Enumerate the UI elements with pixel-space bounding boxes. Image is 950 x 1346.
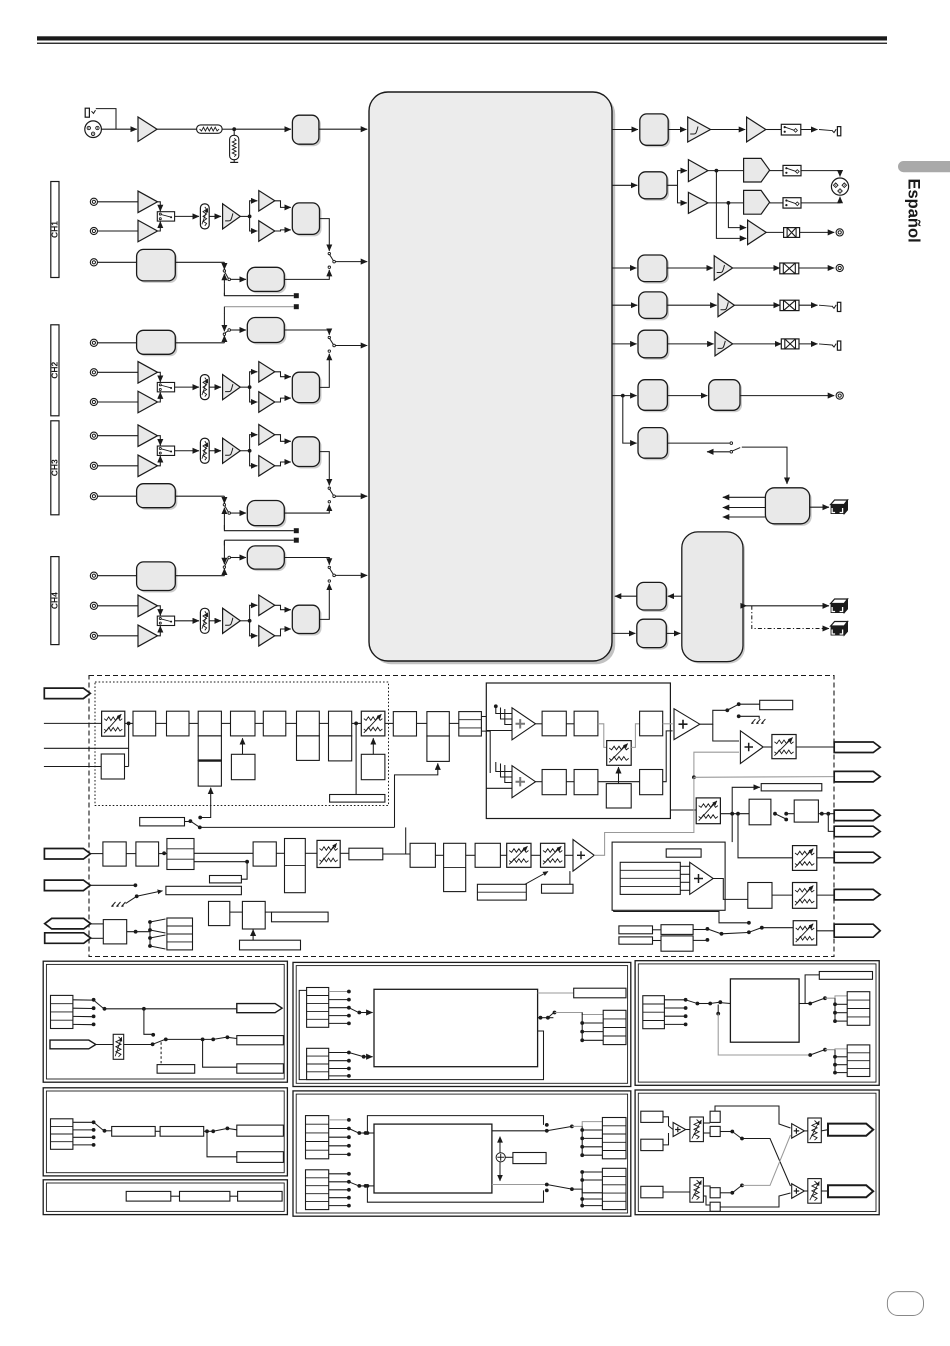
sub block bbox=[329, 736, 352, 761]
label block bbox=[237, 1064, 284, 1073]
CH2 source select switch bbox=[328, 336, 330, 338]
node bbox=[718, 1000, 722, 1004]
sum amp L bbox=[792, 1124, 805, 1139]
CH4 input select switch bbox=[157, 616, 174, 625]
wire gray bbox=[825, 996, 847, 998]
panel M2 group bbox=[293, 1091, 631, 1216]
wire bbox=[664, 999, 684, 1001]
input label pennant bbox=[44, 688, 90, 699]
node bbox=[570, 1187, 574, 1191]
node bbox=[696, 1002, 700, 1006]
contact bbox=[151, 1033, 155, 1037]
wire bbox=[98, 575, 137, 577]
CH1 aux block bbox=[139, 251, 178, 283]
wire bbox=[715, 1106, 791, 1128]
CH4 input amp 1 bbox=[138, 595, 158, 617]
wire bbox=[98, 605, 138, 607]
CH3 post amp 1 bbox=[259, 424, 275, 445]
wire bbox=[372, 738, 374, 754]
wire gray bbox=[663, 723, 673, 725]
switch contact bbox=[148, 920, 152, 924]
feedback loop wire bbox=[299, 990, 543, 1079]
dsp block bbox=[329, 711, 352, 736]
wire bbox=[125, 766, 129, 768]
wire bbox=[250, 201, 258, 217]
wire bbox=[828, 814, 834, 832]
wire bbox=[581, 1172, 583, 1206]
wire bbox=[329, 1181, 348, 1183]
wire bbox=[329, 1007, 348, 1009]
level VR bbox=[113, 1034, 124, 1059]
wire bbox=[796, 746, 834, 748]
contact bbox=[92, 998, 96, 1002]
wire bbox=[496, 762, 512, 772]
header thick rule bbox=[37, 36, 887, 40]
CH4 line input jack 1 bbox=[90, 602, 97, 609]
usb send block bbox=[767, 490, 811, 526]
wire bbox=[693, 929, 706, 931]
mic block bbox=[103, 842, 126, 866]
wire bbox=[44, 766, 101, 768]
wire bbox=[335, 345, 367, 347]
wire bbox=[799, 267, 834, 269]
contact bbox=[347, 1180, 351, 1184]
node bbox=[201, 1038, 205, 1042]
wire bbox=[770, 170, 783, 172]
contact bbox=[545, 1129, 549, 1133]
lever bbox=[190, 821, 199, 827]
wire bbox=[801, 171, 840, 177]
wire bbox=[670, 809, 696, 811]
node bbox=[823, 1048, 827, 1052]
cross wire bbox=[742, 1139, 791, 1187]
wire bbox=[612, 343, 637, 345]
wire bbox=[731, 814, 733, 842]
contact bbox=[347, 1172, 351, 1176]
booth level bbox=[696, 798, 720, 824]
wire bbox=[804, 1130, 807, 1132]
wire bbox=[329, 991, 348, 993]
wire bbox=[284, 558, 329, 565]
wire bbox=[329, 1128, 348, 1130]
node bbox=[553, 1011, 557, 1015]
source stack 2 bbox=[307, 1048, 329, 1079]
aux switch bbox=[223, 333, 225, 335]
wire bbox=[582, 1022, 603, 1024]
bus line bbox=[224, 539, 293, 541]
wire bbox=[505, 765, 512, 783]
contact bbox=[347, 1204, 351, 1208]
block bbox=[103, 920, 126, 944]
node bbox=[570, 1125, 574, 1129]
svg-text:CH2: CH2 bbox=[49, 362, 59, 379]
block bbox=[710, 1111, 720, 1122]
page number pill bbox=[887, 1292, 923, 1316]
wire bbox=[98, 465, 138, 467]
node bbox=[248, 619, 252, 623]
contact bbox=[347, 1051, 351, 1055]
master amp L bbox=[688, 160, 708, 182]
wire bbox=[703, 1196, 710, 1205]
wire bbox=[223, 540, 225, 545]
block bbox=[661, 925, 693, 935]
wire bbox=[763, 746, 772, 748]
contact bbox=[92, 1135, 96, 1139]
label block bbox=[157, 1065, 195, 1074]
lever bbox=[732, 1132, 741, 1139]
block bbox=[231, 754, 255, 779]
wire bbox=[835, 1012, 847, 1014]
node bbox=[494, 704, 498, 708]
dsp block bbox=[574, 711, 598, 736]
wire bbox=[582, 1031, 603, 1033]
Espanol side tab bbox=[898, 161, 950, 172]
control arrow bbox=[525, 872, 548, 885]
wire bbox=[835, 1020, 847, 1022]
block bbox=[112, 1127, 156, 1137]
wire bbox=[772, 894, 793, 896]
label block bbox=[210, 876, 242, 883]
wire bbox=[383, 853, 410, 855]
label block bbox=[819, 972, 872, 980]
block bbox=[748, 883, 772, 909]
wire bbox=[203, 1039, 237, 1067]
node bbox=[580, 1021, 584, 1025]
wire bbox=[817, 894, 834, 896]
contact bbox=[347, 1144, 351, 1148]
node bbox=[362, 1055, 366, 1059]
processor block bbox=[374, 989, 538, 1066]
wire bbox=[231, 557, 247, 559]
CH4 post amp 2 bbox=[259, 626, 275, 647]
wire bbox=[329, 1136, 348, 1138]
wire bbox=[329, 1197, 348, 1199]
node bbox=[727, 201, 731, 205]
wire bbox=[708, 202, 744, 204]
CH3 trim bbox=[200, 438, 209, 463]
lever bbox=[150, 935, 166, 938]
wire bbox=[73, 1129, 93, 1131]
wire bbox=[582, 1171, 602, 1173]
bus terminal square bbox=[294, 528, 299, 533]
CH3 input amp 1 bbox=[138, 425, 158, 447]
ch sum amp R bbox=[512, 766, 536, 798]
wire bbox=[127, 931, 150, 933]
contact bbox=[347, 1135, 351, 1139]
wire bbox=[680, 873, 689, 875]
node bbox=[823, 996, 827, 1000]
block bbox=[640, 430, 669, 461]
block bbox=[794, 800, 818, 822]
wire bbox=[598, 781, 640, 783]
CH4 line input jack 2 bbox=[90, 632, 97, 639]
wire bbox=[105, 1008, 237, 1010]
wire bbox=[703, 1122, 710, 1124]
wire bbox=[320, 584, 330, 620]
wire bbox=[96, 109, 116, 130]
wire bbox=[101, 128, 136, 130]
cue select stack bbox=[167, 918, 193, 950]
crossfader bbox=[361, 711, 385, 736]
node bbox=[730, 1191, 734, 1195]
wire bbox=[240, 386, 249, 388]
cue label pennant bbox=[44, 880, 90, 891]
wire bbox=[44, 747, 129, 749]
CH1 input amp 1 bbox=[138, 191, 158, 213]
CH4 post amp 1 bbox=[259, 595, 275, 616]
wire bbox=[663, 1117, 669, 1126]
crossfader bbox=[317, 840, 340, 867]
wire bbox=[223, 553, 225, 564]
wire bbox=[819, 344, 832, 345]
mic block bbox=[294, 117, 321, 146]
wire bbox=[667, 267, 713, 269]
wire bbox=[740, 395, 834, 397]
input block bbox=[641, 1111, 663, 1122]
wire bbox=[250, 372, 258, 387]
wire bbox=[335, 495, 367, 497]
wire bbox=[207, 1131, 237, 1157]
wire bbox=[742, 447, 787, 484]
wire bbox=[166, 1038, 213, 1040]
wire gray bbox=[492, 1184, 547, 1186]
wire bbox=[486, 787, 512, 789]
sum amp R bbox=[792, 1184, 805, 1199]
mute switch lever bbox=[729, 705, 738, 710]
node bbox=[716, 1012, 720, 1016]
label block bbox=[237, 1036, 284, 1045]
CH2 input select switch bbox=[157, 382, 174, 391]
wire bbox=[175, 342, 224, 344]
wire bbox=[680, 865, 689, 867]
node bbox=[833, 1071, 837, 1075]
phones level block bbox=[642, 116, 670, 147]
wire bbox=[566, 781, 574, 783]
node bbox=[760, 926, 764, 930]
master bus pennant bbox=[834, 742, 880, 753]
wire bbox=[175, 450, 199, 452]
CH2 post amp 1 bbox=[259, 362, 275, 383]
contact bbox=[92, 1143, 96, 1147]
booth level block bbox=[640, 257, 669, 284]
node bbox=[226, 1127, 230, 1131]
wire bbox=[231, 512, 247, 514]
wire gray bbox=[594, 777, 694, 855]
wire bbox=[612, 267, 637, 269]
bus pennant bbox=[834, 852, 880, 863]
master rec amp bbox=[748, 220, 767, 245]
bus line gray bbox=[224, 306, 293, 308]
wire bbox=[156, 722, 167, 724]
contact bbox=[684, 998, 688, 1002]
wire bbox=[819, 305, 832, 306]
processor block bbox=[730, 979, 799, 1042]
CH3 input select switch bbox=[157, 446, 174, 455]
node bbox=[808, 1002, 812, 1006]
output jack bbox=[832, 305, 836, 308]
wire bbox=[98, 230, 138, 232]
wire bbox=[209, 620, 221, 622]
dsp block bbox=[542, 770, 566, 795]
CH4 trim bbox=[200, 608, 209, 633]
phones mute relay bbox=[781, 124, 801, 135]
wire bbox=[275, 605, 291, 609]
block bbox=[238, 1191, 283, 1201]
node bbox=[747, 921, 751, 925]
wire bbox=[231, 329, 247, 331]
lever bbox=[349, 1129, 358, 1133]
wire bbox=[496, 706, 512, 713]
R2 panel border bbox=[635, 1090, 879, 1215]
CH1 input select switch bbox=[157, 212, 174, 221]
label block bbox=[760, 700, 793, 709]
sub block bbox=[198, 736, 221, 761]
wire bbox=[720, 1131, 731, 1133]
block bbox=[710, 1126, 720, 1136]
wire bbox=[799, 343, 818, 345]
wire bbox=[329, 1119, 348, 1121]
ground bbox=[233, 160, 235, 163]
mic block bbox=[136, 842, 159, 866]
switch contact bbox=[189, 819, 193, 823]
label block bbox=[761, 784, 822, 791]
wire bbox=[663, 1191, 690, 1193]
mic phone jack bbox=[85, 108, 89, 117]
wire bbox=[581, 1126, 583, 1155]
wire bbox=[572, 1189, 603, 1193]
CH2 EQ amp bbox=[223, 375, 241, 400]
wire bbox=[98, 371, 138, 373]
node bbox=[580, 1170, 584, 1174]
wire bbox=[582, 1205, 602, 1207]
wire bbox=[700, 710, 726, 724]
node bbox=[580, 1197, 584, 1201]
central DSP block bbox=[372, 95, 615, 664]
block bbox=[710, 1188, 720, 1198]
lever bbox=[150, 919, 166, 922]
wire bbox=[222, 128, 234, 130]
L1 panel border bbox=[43, 961, 287, 1082]
node bbox=[730, 1130, 734, 1134]
wire bbox=[329, 1153, 348, 1155]
master sum amp bbox=[674, 709, 700, 740]
wire gray bbox=[555, 1013, 604, 1015]
amp bbox=[715, 332, 733, 356]
lever bbox=[548, 1013, 554, 1018]
wire gray bbox=[572, 1122, 603, 1127]
wire bbox=[359, 1012, 372, 1014]
wire bbox=[486, 730, 512, 732]
wire bbox=[717, 1005, 719, 1014]
wire bbox=[124, 1044, 152, 1046]
wire bbox=[466, 854, 475, 856]
svg-text:CH1: CH1 bbox=[49, 221, 59, 238]
wire bbox=[565, 854, 573, 856]
bypass wire top bbox=[367, 1116, 543, 1133]
wire bbox=[566, 723, 574, 725]
wire bbox=[240, 620, 249, 622]
wire bbox=[723, 516, 766, 518]
wire bbox=[155, 1130, 160, 1132]
wire bbox=[716, 171, 746, 239]
wire bbox=[663, 731, 673, 782]
R1 panel border bbox=[635, 961, 879, 1086]
wire bbox=[175, 620, 199, 622]
lever bbox=[810, 999, 824, 1004]
level block bbox=[640, 332, 669, 360]
lever arrow bbox=[137, 891, 163, 897]
wire bbox=[505, 709, 512, 725]
isolation transformer bbox=[784, 228, 800, 238]
block bbox=[361, 754, 385, 779]
wire bbox=[359, 1185, 374, 1187]
dsp block bbox=[198, 711, 221, 736]
block bbox=[180, 1191, 230, 1201]
panel M1 group bbox=[293, 962, 631, 1086]
label block bbox=[542, 884, 574, 893]
wire bbox=[189, 722, 198, 724]
wire bbox=[417, 722, 427, 724]
node bbox=[706, 927, 710, 931]
wire bbox=[275, 398, 291, 402]
wire bbox=[612, 395, 637, 397]
wire bbox=[105, 1130, 112, 1132]
contact bbox=[347, 998, 351, 1002]
CH4 aux input jack bbox=[90, 572, 97, 579]
aux switch bbox=[223, 270, 225, 272]
wire bbox=[329, 1060, 348, 1062]
wire bbox=[275, 201, 291, 208]
wire bbox=[98, 261, 137, 263]
wire bbox=[175, 495, 224, 497]
wire bbox=[250, 605, 258, 621]
wire bbox=[536, 723, 543, 725]
wire bbox=[329, 1075, 348, 1077]
node bbox=[808, 1053, 812, 1057]
wire bbox=[492, 1130, 547, 1132]
contact bbox=[545, 1123, 549, 1127]
wire gray bbox=[631, 724, 639, 748]
wire bbox=[612, 632, 635, 634]
CH2 input amp 2 bbox=[138, 391, 158, 413]
node bbox=[720, 932, 724, 936]
CH2 input amp 1 bbox=[138, 362, 158, 384]
wire bbox=[250, 451, 258, 466]
wire bbox=[834, 1050, 836, 1073]
label block bbox=[272, 912, 329, 922]
panel L3 group bbox=[43, 1180, 287, 1215]
wire bbox=[481, 716, 486, 718]
wire bbox=[733, 267, 780, 269]
wire bbox=[284, 270, 329, 279]
wire bbox=[817, 930, 834, 932]
wire bbox=[722, 933, 748, 934]
out pennant bbox=[237, 1004, 282, 1013]
wire bbox=[395, 763, 438, 827]
bus pennant bbox=[834, 810, 880, 821]
wire bbox=[364, 1056, 373, 1058]
CH2 label bar bbox=[51, 325, 59, 416]
dsp block bbox=[475, 843, 500, 867]
input block bbox=[641, 1186, 663, 1198]
dsp block bbox=[640, 770, 663, 795]
sub block bbox=[297, 736, 320, 761]
CH3 aux block bbox=[139, 486, 178, 510]
sum circle bbox=[496, 1153, 505, 1162]
booth amp bbox=[714, 256, 732, 281]
wire bbox=[73, 999, 93, 1001]
wire bbox=[335, 261, 367, 263]
